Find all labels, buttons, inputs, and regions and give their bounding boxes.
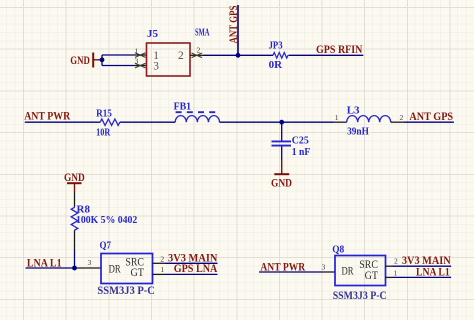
power port GND stem (above R8): [74, 184, 76, 192]
L3 designator: [347, 105, 360, 117]
svg-text:L3: L3: [347, 105, 360, 117]
svg-text:3: 3: [322, 263, 326, 272]
net label GPS_RFIN: [316, 43, 363, 56]
power port GND label (below C25): [271, 176, 292, 189]
J5 designator: [147, 28, 159, 40]
svg-text:DR: DR: [342, 266, 354, 278]
power port GND label (above R8): [64, 171, 85, 184]
transistor Q8 pin 1: [386, 268, 398, 277]
JP3 value 0R: [269, 59, 284, 71]
inductor L3 pin 2: [391, 113, 404, 122]
svg-text:SSM3J3 P-C: SSM3J3 P-C: [97, 285, 154, 297]
no-ERC cross on J5 pin 2: [192, 53, 203, 58]
wire Q7 pin1 GPS_LNA: [166, 273, 218, 275]
J5 pin name 1: [153, 50, 159, 62]
svg-text:GPS RFIN: GPS RFIN: [316, 43, 363, 56]
svg-text:GT: GT: [365, 270, 379, 282]
ferrite bead FB1: [175, 112, 220, 122]
FB1 designator: [174, 101, 192, 113]
svg-text:R15: R15: [96, 108, 112, 120]
J5 pin name 3: [153, 61, 159, 73]
wire junction down to C25: [281, 122, 283, 140]
svg-text:DR: DR: [109, 264, 121, 276]
R15 value 10R: [96, 127, 111, 139]
wire R15 to FB1: [120, 121, 175, 123]
Q8 comment SSM3J3 P-C: [333, 290, 387, 302]
C25 designator: [292, 135, 309, 147]
svg-text:2: 2: [394, 257, 398, 266]
power port GND bar (below C25): [274, 173, 289, 175]
svg-text:Q8: Q8: [332, 243, 344, 255]
resistor R8 pin 1: [74, 192, 76, 207]
wire L3 to ANT_GPS: [404, 121, 454, 123]
Q7 pin name SRC: [125, 256, 144, 268]
svg-text:3: 3: [153, 61, 159, 73]
transistor Q8 pin 3 (gate): [322, 263, 336, 272]
power port GND stub wire: [94, 59, 102, 61]
net label ANT_PWR: [24, 110, 71, 123]
wire JP3 to GPS_RFIN: [289, 54, 364, 56]
R15 designator: [96, 108, 112, 120]
node junction at GND split: [100, 57, 105, 62]
Q8 pin name GT: [365, 270, 379, 282]
wire Q7 pin2 3V3_MAIN: [166, 262, 218, 264]
svg-text:1: 1: [393, 268, 397, 277]
transistor Q8 pin 2: [386, 257, 399, 267]
R8 designator: [77, 203, 91, 215]
svg-text:SSM3J3 P-C: SSM3J3 P-C: [333, 290, 387, 302]
svg-text:Q7: Q7: [100, 240, 112, 252]
J5 comment SMA: [195, 27, 210, 39]
svg-text:GPS LNA: GPS LNA: [174, 262, 218, 275]
net label ANT_GPS (vertical): [227, 6, 240, 44]
no-ERC cross on J5 pin 3: [135, 63, 146, 68]
svg-text:ANT PWR: ANT PWR: [24, 110, 71, 123]
connector J5 body: [147, 43, 191, 76]
net label ANT_GPS (right): [409, 110, 453, 123]
power port GND (top-left) label: [70, 54, 90, 67]
net label LNA_L1: [27, 256, 62, 269]
node junction LNA_L1/R8: [72, 266, 77, 271]
power port GND bar (above R8): [67, 182, 82, 184]
net label GPS_LNA: [174, 262, 218, 275]
wire to J5 pin 1: [102, 54, 134, 56]
wire ANT_PWR to R15: [25, 121, 100, 123]
Q7 designator: [100, 240, 112, 252]
Q8 designator: [332, 243, 344, 255]
svg-text:FB1: FB1: [174, 101, 192, 113]
net label 3V3_MAIN (Q7): [168, 251, 218, 264]
power port GND stem (below C25): [281, 160, 283, 174]
svg-text:ANT GPS: ANT GPS: [227, 6, 240, 44]
R8 value: [76, 214, 138, 226]
wire to J5 pin 3: [102, 65, 134, 67]
resistor R8 body: [71, 207, 78, 230]
net label 3V3_MAIN (Q8): [402, 254, 451, 267]
Q7 pin name DR: [109, 264, 121, 276]
svg-text:2: 2: [400, 113, 404, 122]
wire junction to L3: [282, 121, 334, 123]
node junction at C25: [279, 120, 284, 125]
svg-text:GND: GND: [70, 54, 90, 67]
svg-text:LNA L1: LNA L1: [416, 266, 450, 279]
inductor L3 body: [347, 116, 391, 123]
wire C25 to GND: [281, 147, 283, 161]
resistor JP3: [273, 53, 288, 59]
wire R8 to LNA_L1 node: [74, 250, 76, 268]
svg-text:1 nF: 1 nF: [292, 146, 311, 158]
Q7 comment SSM3J3 P-C: [97, 285, 154, 297]
power port GND (top-left) bar: [92, 53, 94, 68]
svg-text:JP3: JP3: [269, 40, 283, 52]
connector J5 pin 1: [134, 46, 147, 55]
node junction ANT_GPS: [236, 53, 241, 58]
transistor Q7 body: [101, 254, 153, 284]
wire vertical ANT_GPS: [237, 5, 239, 55]
wire Q8 pin1 LNA_L1: [393, 276, 452, 278]
wire FB1 to junction: [220, 121, 282, 123]
C25 value 1 nF: [292, 146, 311, 158]
L3 value 39nH: [347, 126, 369, 138]
transistor Q8 body: [335, 256, 386, 286]
svg-text:3: 3: [88, 258, 92, 267]
svg-text:J5: J5: [147, 28, 159, 40]
connector J5 pin 3: [134, 57, 147, 66]
JP3 designator: [269, 40, 283, 52]
Q8 pin name DR: [342, 266, 354, 278]
wire pin2 to junction: [204, 54, 239, 56]
svg-text:LNA L1: LNA L1: [27, 256, 62, 269]
net label LNA_L1 (Q8): [416, 266, 450, 279]
svg-text:2: 2: [178, 50, 184, 62]
svg-text:100K 5% 0402: 100K 5% 0402: [76, 214, 138, 226]
net label ANT_PWR (Q8): [260, 261, 305, 274]
svg-text:2: 2: [160, 254, 164, 263]
wire junction to JP3: [238, 54, 273, 56]
svg-text:0R: 0R: [269, 59, 284, 71]
svg-text:39nH: 39nH: [347, 126, 369, 138]
svg-text:SRC: SRC: [359, 259, 378, 271]
svg-text:10R: 10R: [96, 127, 111, 139]
svg-text:SMA: SMA: [195, 27, 210, 39]
svg-text:2: 2: [197, 46, 201, 55]
svg-text:GND: GND: [271, 176, 292, 189]
inductor L3 pin 1: [334, 113, 347, 122]
J5 pin name 2: [178, 50, 184, 62]
resistor R8 pin 2: [74, 230, 76, 250]
svg-text:GT: GT: [131, 267, 145, 279]
wire Q8 pin2 3V3_MAIN: [393, 265, 452, 267]
Q7 pin name GT: [131, 267, 145, 279]
capacitor C25: [272, 141, 292, 145]
svg-text:GND: GND: [64, 171, 85, 184]
svg-text:1: 1: [160, 265, 164, 274]
wire vertical split: [101, 55, 103, 66]
transistor Q7 pin 2: [153, 254, 166, 263]
transistor Q7 pin 1: [153, 265, 166, 275]
no-ERC cross on J5 pin 1: [135, 53, 146, 58]
resistor R15: [100, 119, 120, 125]
Q8 pin name SRC: [359, 259, 378, 271]
connector J5 pin 2: [190, 46, 204, 56]
svg-text:ANT GPS: ANT GPS: [409, 110, 453, 123]
wire LNA_L1 to junction: [26, 267, 77, 269]
svg-text:1: 1: [335, 113, 339, 122]
transistor Q7 pin 3 (gate): [76, 258, 101, 268]
wire ANT_PWR to Q8: [259, 271, 322, 273]
svg-text:C25: C25: [292, 135, 309, 147]
